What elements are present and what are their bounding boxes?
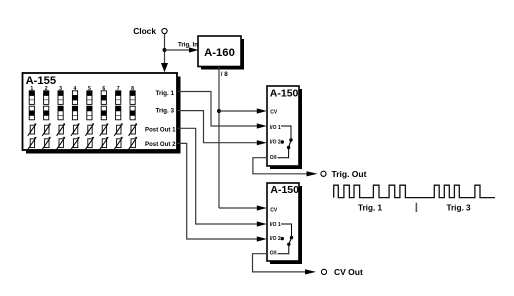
module A-155 sequencer — [23, 73, 181, 154]
wire /8 to CV upper A-150 — [219, 110, 258, 112]
slider row2 step 1 — [29, 106, 35, 120]
module A-160 clock divider — [198, 36, 244, 70]
pot row2 step 2 — [42, 137, 51, 150]
switch upper: I/O2 contact dot — [281, 140, 284, 143]
pot row1 step 7 — [114, 123, 123, 136]
A-155 step numbers 1-8 — [30, 86, 134, 92]
switch upper: I/O1 branch — [281, 126, 291, 139]
switch lower: lever and pole — [287, 243, 290, 246]
slider row1 step 5 — [87, 91, 93, 105]
svg-text:A-160: A-160 — [204, 47, 235, 59]
module A-150 upper switch — [267, 86, 302, 169]
svg-text:Trig. Out: Trig. Out — [332, 169, 367, 179]
slider row1 step 1 — [29, 91, 35, 105]
slider row1 step 2 — [43, 91, 49, 105]
svg-text:Trig. 1: Trig. 1 — [358, 204, 383, 213]
pot row2 step 7 — [114, 137, 123, 150]
pot row2 step 8 — [129, 137, 138, 150]
svg-text:Clock: Clock — [133, 26, 156, 36]
slider row1 step 3 — [58, 91, 64, 105]
pot row1 step 2 — [42, 123, 51, 136]
slider row1 step 4 — [72, 91, 78, 105]
junction clock node — [163, 48, 167, 52]
pot row2 step 5 — [85, 137, 94, 150]
wire Post Out 2 to I/O 2 of lower A-150 — [178, 143, 259, 239]
slider row1 step 7 — [115, 91, 121, 105]
svg-text:Trig. 1: Trig. 1 — [155, 90, 174, 97]
pot row1 step 5 — [85, 123, 94, 136]
wire clock vertical down to A-155 — [164, 34, 166, 64]
waveform separator bar — [415, 203, 417, 212]
waveform trig pulses — [334, 185, 495, 197]
wire Trig.1 to I/O 1 of upper A-150 — [178, 92, 259, 127]
switch lower: I/O1 branch — [281, 224, 292, 237]
switch upper: lever and pole — [287, 146, 290, 149]
pot row1 step 1 — [28, 123, 37, 136]
pot row2 step 4 — [71, 137, 80, 150]
svg-text:Trig. In: Trig. In — [178, 41, 198, 48]
slider row2 step 2 — [43, 106, 49, 120]
wire /8 to CV lower A-150 — [219, 207, 258, 209]
node Clock input — [133, 26, 167, 36]
svg-text:O/I: O/I — [270, 155, 277, 161]
svg-text:CV: CV — [270, 208, 278, 214]
node Trig. Out — [321, 171, 326, 176]
wire clock branch to A-160 — [165, 49, 191, 51]
slider row1 step 8 — [130, 91, 136, 105]
wire Trig.3 to I/O 2 of upper A-150 — [178, 111, 259, 143]
svg-text:/ 8: / 8 — [221, 71, 228, 78]
module A-150 lower switch — [267, 183, 302, 264]
slider row2 step 7 — [115, 106, 121, 120]
pot row1 step 6 — [100, 123, 109, 136]
svg-text:Post Out 2: Post Out 2 — [145, 141, 176, 148]
svg-text:I/O 2: I/O 2 — [270, 236, 281, 242]
wire /8 vertical from A-160 down — [218, 67, 220, 208]
pot row1 step 4 — [71, 123, 80, 136]
svg-text:Post Out 1: Post Out 1 — [145, 127, 176, 134]
svg-text:I/O 1: I/O 1 — [270, 222, 281, 228]
slider row2 step 3 — [58, 106, 64, 120]
pot row2 step 6 — [100, 137, 109, 150]
slider row2 step 6 — [101, 106, 107, 120]
switch lower: I/O2 contact dot — [281, 237, 284, 240]
svg-text:O/I: O/I — [270, 250, 277, 256]
svg-text:A-150: A-150 — [270, 184, 299, 196]
wire O/I upper to Trig. Out — [253, 158, 308, 174]
arrow into A-160 Trig. In — [189, 47, 199, 52]
pot row1 step 8 — [129, 123, 138, 136]
svg-text:A-150: A-150 — [270, 87, 299, 99]
svg-text:I/O 1: I/O 1 — [270, 125, 281, 131]
junction /8 to CV of upper A-150 — [217, 109, 221, 113]
slider row2 step 5 — [87, 106, 93, 120]
wire Post Out 1 to I/O 1 of lower A-150 — [178, 128, 259, 224]
pot row1 step 3 — [57, 123, 66, 136]
svg-text:Trig. 3: Trig. 3 — [446, 204, 471, 213]
node CV Out — [321, 269, 326, 274]
arrow into A-155 top — [161, 63, 168, 72]
pot row2 step 1 — [28, 137, 37, 150]
svg-text:CV Out: CV Out — [334, 267, 363, 277]
pot row2 step 3 — [57, 137, 66, 150]
wire O/I lower to CV Out — [253, 254, 307, 272]
slider row2 step 8 — [130, 106, 136, 120]
svg-text:CV: CV — [270, 109, 278, 115]
slider row2 step 4 — [72, 106, 78, 120]
svg-text:Trig. 3: Trig. 3 — [155, 107, 174, 114]
svg-text:I/O 2: I/O 2 — [270, 140, 281, 146]
slider row1 step 6 — [101, 91, 107, 105]
